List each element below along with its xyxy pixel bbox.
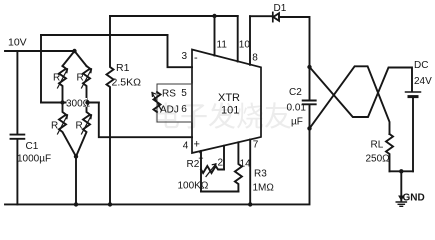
svg-text:+: + (194, 139, 200, 151)
svg-text:R: R (53, 73, 60, 84)
svg-text:R: R (77, 73, 84, 84)
svg-text:5: 5 (181, 88, 187, 99)
wire pin3 feed vertical + horizontal (168, 35, 193, 67)
node VCC 10V label (8, 37, 27, 49)
wire bridge right node to pin4 (87, 103, 193, 138)
resistor R (bridge lower-right) (76, 103, 90, 157)
wire top rail left segment (110, 15, 238, 17)
wire left vertical rail (C1 branch) upper (16, 51, 18, 134)
ground (400, 171, 402, 200)
pin 10 wire (237, 16, 239, 62)
svg-text:RL: RL (371, 140, 384, 151)
svg-text:ADJ: ADJ (160, 105, 179, 116)
resistor R (bridge upper-left) (59, 66, 66, 103)
svg-text:µF: µF (291, 117, 303, 128)
wire left loop vertical (40, 35, 42, 103)
svg-text:-: - (194, 52, 198, 64)
svg-text:R: R (51, 121, 58, 132)
wire top rail right segment (250, 15, 273, 17)
wire bridge mid row (300 ohm row) (41, 102, 99, 104)
potentiometer R2 (200, 151, 202, 192)
svg-text:3: 3 (182, 51, 188, 62)
svg-text:R1: R1 (116, 62, 130, 74)
svg-text:R3: R3 (254, 169, 267, 180)
svg-text:1: 1 (198, 151, 204, 162)
wire twisted pair A (310, 67, 413, 117)
node bridge top vertex (72, 49, 76, 53)
node bridge left mid (60, 100, 64, 104)
svg-text:XTR: XTR (218, 92, 240, 104)
node bridge right mid (85, 100, 89, 104)
svg-text:0.01: 0.01 (287, 103, 307, 114)
svg-text:11: 11 (217, 40, 228, 51)
node pin11 junction on rail (212, 14, 216, 18)
pin 4 label (183, 141, 189, 152)
svg-text:2: 2 (218, 158, 224, 169)
wire left loop top horizontal (41, 34, 168, 36)
wire twisted pair B (310, 66, 390, 134)
node bridge bottom vertex (74, 154, 78, 158)
node ground junction (399, 169, 403, 173)
op-amp U1 XTR101 body (192, 50, 261, 154)
diode D1 (272, 12, 274, 21)
resistor R3 (235, 142, 242, 191)
node twisted pair top (307, 65, 311, 69)
resistor R1 (107, 16, 114, 204)
svg-text:C1: C1 (26, 141, 39, 152)
watermark (152, 101, 292, 132)
svg-text:D1: D1 (274, 3, 287, 14)
pin 3 label (182, 51, 188, 62)
svg-text:8: 8 (252, 53, 258, 64)
battery DC 24V (406, 91, 421, 93)
bridge arm upper-right slant (75, 51, 87, 66)
svg-text:RS: RS (162, 89, 176, 100)
svg-text:6: 6 (181, 104, 187, 115)
label 300 ohm (66, 98, 91, 110)
svg-text:100KΩ: 100KΩ (178, 181, 209, 192)
resistor RL (386, 134, 393, 171)
svg-text:7: 7 (253, 140, 259, 151)
bridge arm upper-left slant (63, 51, 75, 66)
svg-text:24V: 24V (414, 76, 432, 87)
wire R2 bottom to R3 bottom (201, 191, 238, 193)
RS ADJ box (157, 84, 192, 122)
svg-text:GND: GND (403, 193, 425, 204)
svg-text:DC: DC (414, 60, 428, 71)
svg-text:10: 10 (239, 40, 251, 51)
wire bottom rail (5, 128, 310, 204)
pin 11 wire (214, 16, 216, 56)
resistor RS (span adjust) (154, 92, 161, 112)
svg-text:C2: C2 (289, 87, 302, 98)
capacitor C1 (11, 135, 25, 139)
svg-text:250Ω: 250Ω (366, 154, 391, 165)
pin 7 wire (249, 140, 251, 205)
resistor R (bridge upper-right) (83, 66, 90, 103)
resistor R (bridge lower-left) (59, 103, 76, 157)
capacitor C2 (309, 67, 311, 100)
svg-text:10V: 10V (8, 37, 27, 49)
svg-text:101: 101 (221, 105, 239, 117)
wire bridge bottom to rail (75, 157, 77, 205)
node twisted pair bottom (307, 126, 311, 130)
svg-text:2.5KΩ: 2.5KΩ (112, 77, 142, 89)
svg-text:R: R (76, 121, 83, 132)
svg-text:1000µF: 1000µF (17, 154, 51, 165)
svg-text:4: 4 (183, 141, 189, 152)
wire RL bottom to battery bottom (390, 170, 414, 172)
pin 8 wire (249, 16, 251, 65)
svg-text:1MΩ: 1MΩ (253, 183, 275, 194)
wire 10V supply horizontal to bridge top (5, 50, 75, 52)
